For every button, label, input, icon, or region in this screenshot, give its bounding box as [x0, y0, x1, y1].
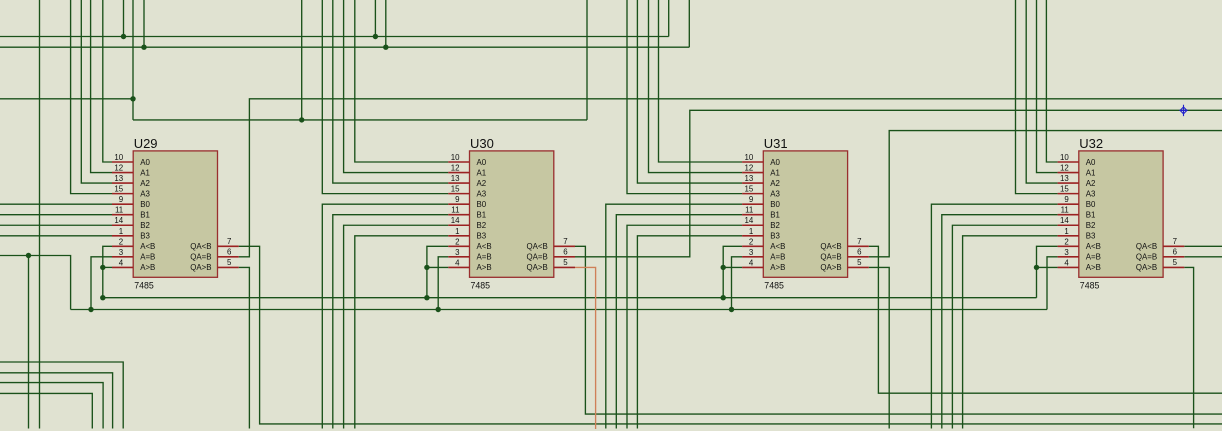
wire U30 QA>B output (orange net) [575, 267, 596, 429]
wire A0 bus drop to U31 pin 10 [659, 0, 743, 162]
wire U32 QA<B output to right edge [1184, 245, 1222, 247]
svg-text:U32: U32 [1079, 136, 1103, 151]
svg-text:4: 4 [1064, 258, 1069, 267]
wire A1 bus drop to U32 pin 12 [1037, 0, 1058, 173]
wire U30 B1 riser down [333, 215, 449, 429]
svg-text:12: 12 [1060, 164, 1069, 173]
junction x=133 y=99 [130, 96, 135, 101]
wire A1 bus drop to U30 pin 12 [344, 0, 449, 173]
svg-text:QA>B: QA>B [190, 263, 211, 272]
junction U30 A>B tap [424, 265, 429, 270]
svg-text:A=B: A=B [140, 253, 155, 262]
wire rail A-equal y=309.5 [71, 309, 1047, 311]
comparator U31 7485 body [763, 151, 847, 277]
svg-text:B3: B3 [477, 232, 487, 241]
svg-text:2: 2 [1064, 237, 1068, 246]
svg-text:6: 6 [227, 248, 232, 257]
svg-text:QA<B: QA<B [820, 242, 841, 251]
junction x=375.4 y=36.5 [373, 34, 378, 39]
wire U32 B3 riser down [963, 236, 1058, 429]
wire U29 QA>B output [239, 267, 250, 428]
junction U30 A=B rail [436, 307, 441, 312]
wire bottom-left L3 [0, 383, 103, 429]
svg-text:U31: U31 [764, 136, 788, 151]
svg-text:QA=B: QA=B [1136, 253, 1157, 262]
wire vertical drop x=28.5 [28, 256, 30, 429]
svg-text:A2: A2 [770, 179, 780, 188]
wire U30 QA<B output [575, 246, 1222, 414]
svg-text:4: 4 [119, 258, 124, 267]
wire vertical tap x=301.7 to net y120 [301, 0, 303, 120]
pin names U31 [770, 158, 841, 272]
junction x=144 y=47.2 [141, 45, 146, 50]
svg-text:QA<B: QA<B [190, 242, 211, 251]
svg-text:B0: B0 [770, 200, 780, 209]
svg-text:A<B: A<B [477, 242, 492, 251]
wire U32 QA=B output to right edge [1184, 256, 1222, 258]
wire A1 bus drop to U31 pin 12 [649, 0, 743, 173]
wire A0 bus drop to U29 pin 10 [103, 0, 112, 162]
junction U29 A<B rail [100, 295, 105, 300]
wire U31 B3 riser down [637, 236, 742, 429]
wire A3 bus drop to U32 pin 15 [1016, 0, 1058, 194]
wire U29 B1 from left edge [0, 214, 112, 216]
svg-text:A0: A0 [477, 158, 487, 167]
svg-text:A0: A0 [770, 158, 780, 167]
comparator U32 7485 body [1079, 151, 1163, 277]
svg-text:3: 3 [1064, 248, 1069, 257]
svg-text:A2: A2 [1086, 179, 1096, 188]
wire A1 bus drop to U29 pin 12 [91, 0, 112, 173]
wire A2 bus drop to U29 pin 13 [81, 0, 112, 183]
svg-text:5: 5 [857, 258, 862, 267]
svg-text:11: 11 [115, 206, 123, 215]
wire U30 B2 riser down [344, 225, 449, 428]
svg-text:B1: B1 [770, 211, 780, 220]
svg-text:B0: B0 [1086, 200, 1096, 209]
svg-text:3: 3 [455, 248, 460, 257]
wire vertical tap x=144 to net y47 [143, 0, 145, 47]
wire U29 A=B input [91, 257, 112, 310]
svg-text:7: 7 [857, 237, 861, 246]
junction U32 A>B tap [1034, 265, 1039, 270]
junction U30 A<B rail [424, 295, 429, 300]
wire U29 B3 from left edge [0, 235, 112, 237]
pin numbers U31 [745, 153, 863, 267]
svg-text:A1: A1 [140, 168, 150, 177]
wire U32 QA>B output [1184, 267, 1193, 428]
wire vertical bus line x=39.5 [39, 0, 41, 429]
svg-text:7: 7 [1173, 237, 1177, 246]
pin numbers U32 [1060, 153, 1178, 267]
svg-text:4: 4 [749, 258, 754, 267]
svg-text:B1: B1 [140, 211, 150, 220]
wire U31 B1 riser down [616, 215, 742, 429]
svg-text:2: 2 [749, 237, 753, 246]
svg-text:A3: A3 [140, 189, 150, 198]
svg-text:11: 11 [1061, 206, 1069, 215]
pins U30 stubs [448, 162, 575, 267]
marker schematic origin (blue) [1179, 105, 1187, 116]
svg-text:15: 15 [1060, 185, 1069, 194]
wire U31 A=B input [732, 257, 743, 310]
svg-text:14: 14 [1060, 216, 1069, 225]
wire U29 B0 from left edge [0, 203, 112, 205]
pin names U32 [1086, 158, 1157, 272]
junction U31 A<B rail [721, 295, 726, 300]
wire U29 QA=B output [239, 99, 1222, 257]
pin numbers U30 [451, 153, 569, 267]
wire U30 A=B input [438, 257, 448, 310]
svg-text:5: 5 [563, 258, 568, 267]
svg-text:QA>B: QA>B [820, 263, 841, 272]
junction U29 A>B tap [100, 265, 105, 270]
wire vertical riser x=587 of net y120 [586, 0, 588, 120]
wire rail A-less/greater y=297.7 [103, 297, 1037, 299]
junction x=385.8 y=47.2 [383, 45, 388, 50]
wire A0 bus drop to U30 pin 10 [355, 0, 449, 162]
wire U31 B0 riser down [606, 204, 742, 428]
svg-text:5: 5 [227, 258, 232, 267]
svg-text:4: 4 [455, 258, 460, 267]
svg-text:B0: B0 [477, 200, 487, 209]
svg-text:A=B: A=B [770, 253, 785, 262]
svg-text:3: 3 [119, 248, 124, 257]
junction U31 A>B tap [721, 265, 726, 270]
svg-text:1: 1 [749, 227, 753, 236]
svg-text:A0: A0 [1086, 158, 1096, 167]
wire bottom-left L4 [0, 393, 92, 428]
svg-text:9: 9 [455, 195, 460, 204]
wire bottom-left L1 [0, 362, 123, 429]
svg-text:11: 11 [451, 206, 459, 215]
svg-text:B2: B2 [140, 221, 150, 230]
wire U30 B3 riser down [355, 236, 449, 429]
wire U32 A<B input [1037, 246, 1058, 297]
svg-text:6: 6 [857, 248, 862, 257]
wire A-equal rail feed from left edge [0, 256, 71, 310]
wire U30 QA=B output [575, 110, 1222, 257]
svg-text:10: 10 [114, 153, 123, 162]
wire U32 B1 riser down [942, 215, 1058, 429]
svg-text:15: 15 [451, 185, 460, 194]
svg-text:A2: A2 [140, 179, 150, 188]
svg-text:14: 14 [114, 216, 123, 225]
junction U29 A=B rail [88, 307, 93, 312]
wire U29 B2 from left edge [0, 224, 112, 226]
junction x=301.7 y=120 [299, 117, 304, 122]
wire net y99 left horizontal [0, 98, 133, 100]
svg-text:B1: B1 [477, 211, 487, 220]
wire U31 A<B input [723, 246, 742, 297]
comparator U29 7485 body [133, 151, 217, 277]
pin names U30 [477, 158, 548, 272]
svg-text:3: 3 [749, 248, 754, 257]
svg-text:B3: B3 [1086, 232, 1096, 241]
svg-text:14: 14 [745, 216, 754, 225]
wire vertical x=133 from top to y120 [132, 0, 134, 120]
svg-text:B2: B2 [477, 221, 487, 230]
svg-text:15: 15 [114, 185, 123, 194]
svg-text:U29: U29 [134, 136, 158, 151]
pins U32 stubs [1058, 162, 1185, 267]
wire U29 A<B input [103, 246, 112, 297]
svg-text:7485: 7485 [134, 280, 154, 290]
svg-text:QA<B: QA<B [527, 242, 548, 251]
svg-text:A>B: A>B [770, 263, 785, 272]
svg-text:6: 6 [1173, 248, 1178, 257]
wire A2 bus drop to U32 pin 13 [1026, 0, 1057, 183]
svg-text:14: 14 [451, 216, 460, 225]
svg-text:2: 2 [119, 237, 123, 246]
wire U31 A>B input [723, 266, 742, 268]
svg-text:B2: B2 [770, 221, 780, 230]
wire U29 QA<B output [239, 246, 1222, 424]
wire A2 bus drop to U30 pin 13 [333, 0, 449, 183]
svg-text:A1: A1 [477, 168, 487, 177]
svg-text:10: 10 [451, 153, 460, 162]
svg-text:A>B: A>B [140, 263, 155, 272]
svg-text:5: 5 [1173, 258, 1178, 267]
svg-text:A0: A0 [140, 158, 150, 167]
wire net y47 horizontal [0, 46, 689, 48]
wire vertical riser x=668.7 of net y36 [668, 0, 670, 37]
wire U31 QA<B output [869, 246, 1222, 393]
svg-text:A2: A2 [477, 179, 487, 188]
svg-text:6: 6 [563, 248, 568, 257]
svg-text:A>B: A>B [477, 263, 492, 272]
wire A3 bus drop to U31 pin 15 [627, 0, 742, 194]
wire A3 bus drop to U29 pin 15 [71, 0, 112, 194]
svg-text:1: 1 [1064, 227, 1068, 236]
svg-text:7485: 7485 [1080, 280, 1100, 290]
svg-text:13: 13 [451, 174, 460, 183]
wire net y36 horizontal [0, 36, 669, 38]
svg-text:13: 13 [1060, 174, 1069, 183]
svg-text:B0: B0 [140, 200, 150, 209]
svg-text:13: 13 [745, 174, 754, 183]
svg-text:9: 9 [119, 195, 124, 204]
svg-text:QA=B: QA=B [190, 253, 211, 262]
svg-text:12: 12 [114, 164, 123, 173]
svg-text:B2: B2 [1086, 221, 1096, 230]
wire U32 A>B input [1037, 266, 1058, 268]
wire net y120 horizontal [133, 119, 587, 121]
svg-text:A<B: A<B [140, 242, 155, 251]
wire U29 A>B input [103, 266, 112, 268]
svg-text:2: 2 [455, 237, 459, 246]
wire bottom-left L2 [0, 373, 113, 429]
junction U31 A=B rail [729, 307, 734, 312]
svg-text:A3: A3 [1086, 189, 1096, 198]
wire A2 bus drop to U31 pin 13 [637, 0, 742, 183]
svg-text:A3: A3 [770, 189, 780, 198]
svg-text:A>B: A>B [1086, 263, 1101, 272]
wire U32 A=B input [1047, 257, 1058, 310]
svg-text:10: 10 [1060, 153, 1069, 162]
pin names U29 [140, 158, 211, 272]
wire U31 B2 riser down [627, 225, 742, 428]
wire A0 bus drop to U32 pin 10 [1046, 0, 1057, 162]
svg-text:A<B: A<B [770, 242, 785, 251]
svg-text:B3: B3 [140, 232, 150, 241]
svg-text:12: 12 [745, 164, 754, 173]
svg-text:B3: B3 [770, 232, 780, 241]
svg-text:QA=B: QA=B [527, 253, 548, 262]
svg-text:1: 1 [119, 227, 123, 236]
wire U30 A>B input [427, 266, 448, 268]
svg-text:QA=B: QA=B [820, 253, 841, 262]
svg-text:9: 9 [1064, 195, 1069, 204]
wire U31 QA>B output [869, 267, 889, 428]
svg-text:11: 11 [745, 206, 753, 215]
junction x=123.5 y=36.5 [121, 34, 126, 39]
svg-text:7: 7 [227, 237, 231, 246]
svg-text:7: 7 [563, 237, 567, 246]
svg-text:A3: A3 [477, 189, 487, 198]
svg-text:B1: B1 [1086, 211, 1096, 220]
svg-text:A=B: A=B [477, 253, 492, 262]
wire vertical riser x=689.3 of net y47 [688, 0, 690, 47]
svg-text:1: 1 [455, 227, 459, 236]
svg-text:15: 15 [745, 185, 754, 194]
wire U30 A<B input [427, 246, 448, 297]
svg-text:A<B: A<B [1086, 242, 1101, 251]
wire A3 bus drop to U30 pin 15 [322, 0, 448, 194]
svg-text:13: 13 [114, 174, 123, 183]
wire U30 B0 riser down [322, 204, 448, 428]
wire vertical tap x=375.4 to net y36 [374, 0, 376, 37]
svg-text:A1: A1 [770, 168, 780, 177]
svg-text:QA>B: QA>B [527, 263, 548, 272]
wire U31 QA=B output [869, 131, 1222, 257]
pin numbers U29 [114, 153, 232, 267]
wire vertical tap x=385.8 to net y47 [385, 0, 387, 47]
svg-text:10: 10 [745, 153, 754, 162]
svg-text:12: 12 [451, 164, 460, 173]
svg-text:7485: 7485 [471, 280, 491, 290]
svg-text:QA>B: QA>B [1136, 263, 1157, 272]
junction x=28.5 y=255.5 [26, 253, 31, 258]
wire U32 B2 riser down [952, 225, 1057, 428]
svg-text:U30: U30 [470, 136, 494, 151]
svg-text:9: 9 [749, 195, 754, 204]
wire vertical tap x=123.5 to net y36 [123, 0, 125, 37]
comparator U30 7485 body [470, 151, 554, 277]
svg-text:7485: 7485 [764, 280, 784, 290]
svg-text:A1: A1 [1086, 168, 1096, 177]
pins U31 stubs [742, 162, 869, 267]
pins U29 stubs [112, 162, 239, 267]
svg-text:QA<B: QA<B [1136, 242, 1157, 251]
wire U32 B0 riser down [931, 204, 1057, 428]
svg-text:A=B: A=B [1086, 253, 1101, 262]
